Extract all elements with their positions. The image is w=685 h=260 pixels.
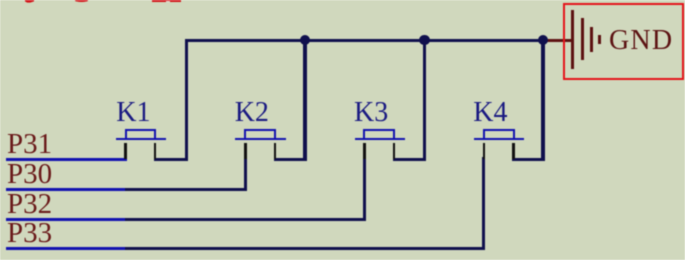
wire: K4 right pin to riser — [512, 158, 545, 161]
push button K3 — [355, 138, 406, 141]
wire: P30 terminal stub (bright) — [6, 188, 125, 191]
junction node at K2 riser — [300, 35, 311, 46]
wire: vertical up to K4 left pin — [482, 157, 485, 250]
wire: riser K2 right to rail — [303, 40, 306, 161]
net label P33 — [7, 219, 52, 248]
wire: vertical up to K2 left pin — [244, 156, 247, 191]
junction node at K4 riser / GND tap — [538, 35, 549, 46]
label GND — [609, 27, 673, 55]
GND symbol bar 3 — [590, 27, 593, 53]
cropped red glyph fragment 2 (top edge) — [75, 0, 88, 2]
wire: P32 to K3 (navy) — [125, 218, 366, 221]
wire: riser K4 right to rail — [541, 40, 544, 161]
push button K2 — [235, 138, 286, 141]
GND symbol bar 2 — [581, 18, 584, 60]
push button K4 — [474, 138, 525, 141]
GND terminal selection box — [563, 3, 683, 80]
wire: maroon stub from rail to GND symbol — [544, 39, 572, 42]
wire: riser K1 right to rail — [185, 39, 188, 161]
label K2 — [235, 99, 269, 127]
net label P32 — [7, 190, 52, 219]
label K4 — [473, 99, 507, 127]
wire: P32 terminal stub (bright) — [6, 218, 125, 221]
wire: P31 terminal stub (bright) — [6, 158, 127, 161]
label K1 — [116, 99, 150, 127]
wire: K2 right pin to riser — [274, 158, 307, 161]
net label P31 — [7, 130, 52, 159]
wire: top GND rail — [185, 39, 545, 42]
GND symbol bar 4 — [598, 35, 601, 44]
wire: vertical up to K3 left pin — [363, 157, 366, 221]
push button K1 — [116, 138, 167, 141]
wire: P33 terminal stub (bright) — [6, 247, 125, 250]
wire: K1 right pin to riser — [154, 158, 188, 161]
wire: P30 to K2 (navy) — [125, 188, 246, 191]
wire: riser K3 right to rail — [423, 40, 426, 161]
junction node at K3 riser — [419, 35, 430, 46]
cropped red glyph fragment 3 (top edge) — [152, 0, 181, 2]
label K3 — [354, 99, 388, 127]
GND symbol bar 1 — [571, 10, 574, 69]
wire: K3 right pin to riser — [393, 158, 426, 161]
net label P30 — [7, 160, 52, 189]
wire: P33 to K4 (navy) — [125, 247, 485, 250]
cropped red glyph fragment 1 (top edge) — [25, 0, 35, 3]
